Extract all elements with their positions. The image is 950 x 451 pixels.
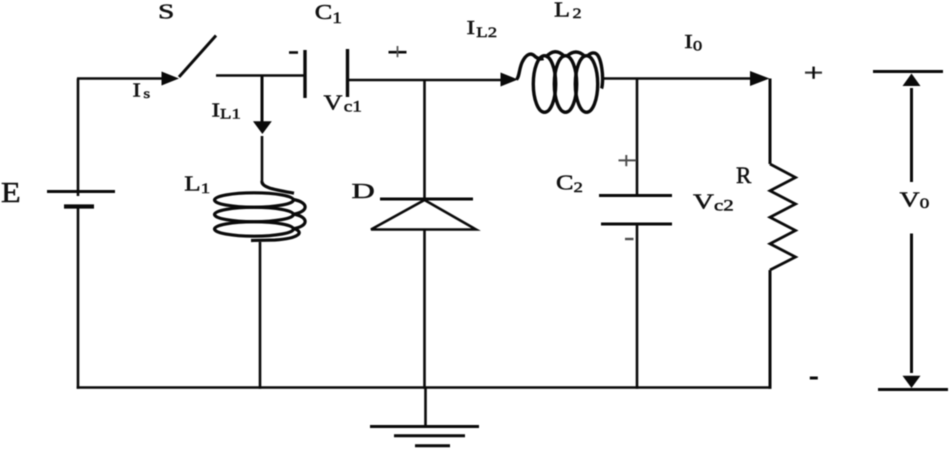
svg-text:IL1: IL1 — [212, 99, 241, 122]
label D — [352, 179, 375, 203]
svg-text:R: R — [736, 163, 752, 188]
wire: diode anode to bottom rail — [423, 230, 426, 389]
label S — [158, 0, 174, 23]
ground — [370, 427, 479, 446]
label minus at output — [810, 377, 818, 380]
svg-text:Is: Is — [133, 79, 151, 102]
label C2 — [556, 172, 583, 196]
V0 measurement arrow bottom bar — [878, 388, 948, 391]
svg-text:I0: I0 — [684, 30, 702, 54]
label IL2 — [467, 16, 498, 40]
V0 measurement arrow upper segment with up arrowhead — [903, 74, 921, 183]
svg-text:C1: C1 — [315, 1, 342, 26]
capacitor C1 — [305, 49, 348, 98]
label plus at C1 — [389, 46, 407, 57]
label plus at output — [805, 67, 822, 79]
label Is — [133, 79, 151, 102]
capacitor C2 — [599, 196, 672, 225]
wire: L2 to load with current arrow I0 — [604, 71, 770, 86]
inductor L1 (vertical coil) — [215, 181, 306, 241]
wire: C2 to bottom rail — [636, 224, 639, 389]
svg-text:D: D — [352, 179, 375, 203]
wire: bottom rail — [77, 386, 772, 389]
label IL1 — [212, 99, 241, 122]
wire: load branch top — [769, 79, 772, 165]
wire: battery to bottom rail — [77, 207, 80, 389]
svg-text:C2: C2 — [556, 172, 583, 196]
wire: L1 bottom to bottom rail — [259, 242, 262, 389]
wire: left vertical from top node to battery — [77, 79, 80, 197]
label minus at C1 — [289, 51, 298, 54]
resistor R — [770, 164, 796, 270]
switch S — [179, 36, 216, 78]
battery E — [47, 192, 115, 207]
svg-text:Vc2: Vc2 — [693, 189, 734, 214]
wire: top left horizontal with current arrow Is — [77, 72, 179, 86]
label minus at C2 — [625, 238, 634, 240]
wire: diode branch down — [423, 80, 426, 198]
wire: IL1 branch down with current arrow — [253, 76, 272, 182]
svg-text:L2: L2 — [554, 0, 582, 22]
diode D — [371, 199, 476, 230]
wire: R to bottom rail — [769, 270, 772, 389]
wire: ground stub — [424, 388, 427, 427]
label I0 — [684, 30, 702, 54]
label V0 — [900, 188, 930, 211]
wire: C2 branch down — [636, 79, 639, 195]
label E — [1, 177, 21, 209]
label Vc2 — [693, 189, 734, 214]
label L1 — [184, 172, 210, 197]
svg-text:V0: V0 — [900, 188, 930, 211]
svg-text:IL2: IL2 — [467, 16, 498, 40]
V0 measurement arrow top bar — [873, 70, 943, 73]
wire: switch to C1 left plate — [216, 74, 304, 77]
inductor L2 (horizontal coil) — [517, 52, 603, 113]
V0 measurement arrow lower segment with down arrowhead — [903, 234, 921, 389]
label L2 — [554, 0, 582, 22]
wire: C1 to L2 with current arrow IL2 — [349, 73, 518, 87]
label R — [736, 163, 752, 188]
svg-text:L1: L1 — [184, 172, 210, 197]
svg-text:S: S — [158, 0, 174, 23]
svg-text:Vc1: Vc1 — [324, 92, 362, 115]
label plus at C2 — [619, 155, 637, 166]
label C1 — [315, 1, 342, 26]
svg-text:E: E — [1, 177, 21, 209]
label Vc1 — [324, 92, 362, 115]
